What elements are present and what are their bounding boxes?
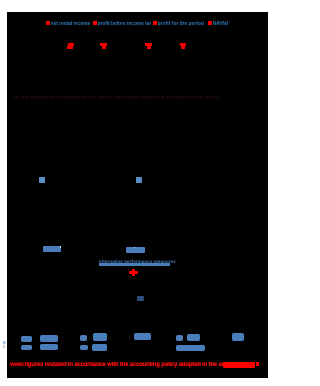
- bottom red bold segment: [223, 362, 255, 368]
- number blob D2: [92, 344, 107, 351]
- bold blue year label 2010: [126, 247, 145, 254]
- legend label 4: [213, 21, 229, 27]
- red wedge marker 3: [145, 43, 152, 46]
- number blob B2: [40, 344, 59, 351]
- number blob C1: [80, 335, 87, 341]
- legend marker 4 (red square): [208, 21, 212, 25]
- chart black background panel: [7, 12, 268, 378]
- number blob M3 (middle): [134, 333, 151, 340]
- blue square node A: [39, 177, 45, 183]
- legend label 2: [98, 21, 151, 27]
- blue link underline bar: [99, 263, 171, 266]
- faint maroon footnote text line: [14, 95, 219, 101]
- bold blue year label 2009: [43, 246, 62, 252]
- legend marker 2 (red square): [93, 21, 97, 25]
- faint blue speck node: [137, 296, 144, 301]
- number blob F1: [187, 334, 201, 341]
- number blob E1: [176, 335, 183, 341]
- legend label 1: [51, 21, 92, 27]
- left margin vertical label: [3, 341, 8, 352]
- bottom red end dot: [256, 362, 259, 366]
- legend marker 1 (red square): [46, 21, 50, 25]
- legend marker 3 (red square): [153, 21, 157, 25]
- red cross marker: [129, 271, 138, 274]
- red wedge marker 4: [180, 43, 187, 46]
- number blob A1: [21, 336, 32, 343]
- year label 1 white speck: [60, 246, 61, 247]
- number blob B1: [40, 335, 58, 343]
- number blob A2: [21, 345, 32, 350]
- red wedge marker 1: [68, 43, 74, 46]
- number blob R4 (right): [232, 333, 245, 341]
- blue link text line: [99, 259, 179, 264]
- number blob D1: [93, 333, 107, 341]
- number blob C2: [80, 345, 88, 350]
- red wedge marker 2: [100, 43, 107, 46]
- number blob G (long row 2): [176, 345, 205, 351]
- year label 2 white speck: [134, 247, 135, 248]
- bottom red footnote text: [10, 362, 223, 369]
- legend label 3: [158, 21, 206, 27]
- blue square node B: [136, 177, 142, 183]
